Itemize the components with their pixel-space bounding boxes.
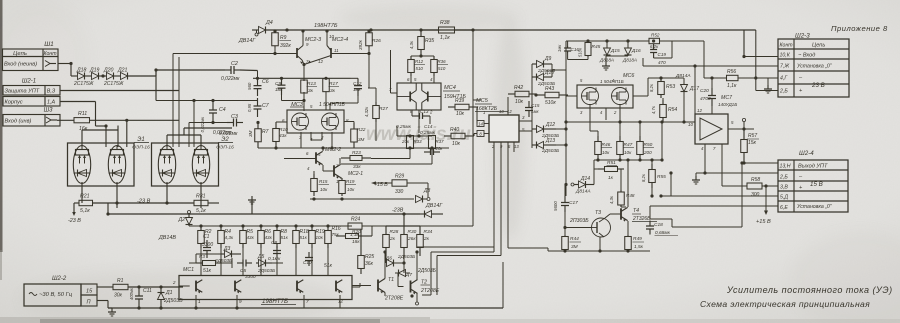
resistor R51 xyxy=(598,168,605,170)
connector table Sh2-4 xyxy=(778,160,848,212)
wire MC2-1 collector to R37 column xyxy=(341,163,432,165)
svg-text:R24: R24 xyxy=(351,217,360,223)
wire D4 terminal xyxy=(252,29,257,31)
transistor MC2-4 xyxy=(330,48,332,58)
capacitor C2 xyxy=(225,69,231,71)
wires T1 T2 xyxy=(385,256,387,263)
resistor R20 xyxy=(340,235,346,237)
transistor MC2-2 xyxy=(315,152,317,163)
capacitor C16 xyxy=(567,46,569,48)
resistor R42 xyxy=(508,93,515,95)
resistor R16 xyxy=(327,226,329,231)
svg-text:-23В: -23В xyxy=(392,208,404,214)
connector row Zashita UPT xyxy=(3,86,60,96)
svg-text:300: 300 xyxy=(751,192,760,198)
connector row Korpus xyxy=(3,97,60,107)
svg-text:Т1: Т1 xyxy=(388,277,394,283)
svg-text:2Т208Е: 2Т208Е xyxy=(384,296,404,302)
svg-text:330: 330 xyxy=(395,189,404,195)
svg-text:3к: 3к xyxy=(330,88,336,94)
resistor R18 xyxy=(295,226,297,231)
wires box to bottom bus xyxy=(195,295,197,308)
svg-text:3М: 3М xyxy=(571,244,578,250)
top bus xyxy=(266,29,756,31)
svg-text:10к: 10к xyxy=(456,111,465,117)
resistor R10 xyxy=(275,122,277,129)
diode D8 xyxy=(416,196,423,203)
capacitor C19 xyxy=(653,44,655,50)
capacitor C9 xyxy=(281,78,283,85)
connector row Vhod inv xyxy=(3,115,60,127)
svg-text:15 В: 15 В xyxy=(810,181,823,188)
svg-text:510: 510 xyxy=(438,66,446,71)
capacitor C13 xyxy=(412,115,420,117)
svg-text:510к: 510к xyxy=(578,47,583,57)
svg-text:С12: С12 xyxy=(353,81,362,86)
MC5 pin tabs xyxy=(477,121,484,127)
svg-text:ДВ14В: ДВ14В xyxy=(158,235,176,241)
terminal above R57 xyxy=(742,118,745,121)
svg-text:4,3к: 4,3к xyxy=(609,195,614,204)
resistor R19 xyxy=(311,226,313,231)
wires resistor row to box xyxy=(200,248,202,275)
base wire MC2-4 xyxy=(331,53,369,55)
wires below optos xyxy=(81,182,83,203)
svg-text:ОЭП-16: ОЭП-16 xyxy=(216,145,234,151)
feedback wire y227 xyxy=(672,226,742,228)
resistor R27 xyxy=(375,102,377,106)
resistor R2 xyxy=(200,226,202,231)
transistor MC4b in box xyxy=(335,281,337,292)
svg-text:2Д503Б: 2Д503Б xyxy=(257,268,275,274)
svg-text:R39: R39 xyxy=(455,98,464,104)
base wire MC2-3 xyxy=(274,48,276,54)
svg-text:392к: 392к xyxy=(358,39,363,50)
svg-text:МС6: МС6 xyxy=(623,73,634,79)
svg-text:3М: 3М xyxy=(248,130,253,137)
svg-text:Ш2-1: Ш2-1 xyxy=(22,79,36,85)
svg-text:Д4: Д4 xyxy=(265,20,273,26)
diode D7 xyxy=(399,270,406,277)
resistor R1 xyxy=(113,284,128,289)
capacitor C11 xyxy=(138,287,140,296)
svg-text:5,1к: 5,1к xyxy=(80,208,90,214)
svg-text:С7: С7 xyxy=(262,103,270,109)
svg-text:С10: С10 xyxy=(303,260,312,265)
svg-text:18к: 18к xyxy=(352,239,360,245)
capacitor C5 xyxy=(237,262,243,264)
svg-text:43к: 43к xyxy=(279,133,287,139)
ground near Sh2-3 xyxy=(767,85,769,89)
wire 6E row xyxy=(650,205,778,207)
svg-text:2: 2 xyxy=(172,280,176,285)
svg-text:10к: 10к xyxy=(316,235,324,240)
zener bottom wire and ground xyxy=(568,59,588,61)
vertical bus to 2B row xyxy=(755,30,757,91)
wires MC5 bottom xyxy=(493,142,495,252)
svg-text:R52: R52 xyxy=(651,33,660,38)
optocoupler block E1 box xyxy=(68,143,135,186)
svg-text:R42: R42 xyxy=(514,85,523,91)
diode D9 xyxy=(537,61,544,68)
svg-text:0,022мк: 0,022мк xyxy=(219,131,238,137)
svg-text:Ш3: Ш3 xyxy=(44,108,54,114)
resistor R13 xyxy=(303,80,305,81)
svg-text:36к: 36к xyxy=(365,261,374,267)
resistor R15 xyxy=(313,174,315,179)
svg-text:Д19: Д19 xyxy=(89,68,100,74)
svg-text:1,1к: 1,1к xyxy=(440,35,450,41)
svg-text:5600: 5600 xyxy=(553,201,558,211)
capacitor C15 xyxy=(528,101,530,108)
capacitor C1 xyxy=(206,240,208,248)
svg-text:4,7к: 4,7к xyxy=(651,105,656,114)
svg-text:10: 10 xyxy=(688,122,693,127)
svg-text:Д17: Д17 xyxy=(689,86,699,92)
svg-text:7: 7 xyxy=(306,299,309,304)
resistor R44 xyxy=(564,235,566,237)
wires center verticals xyxy=(344,121,354,123)
svg-text:9: 9 xyxy=(239,299,242,304)
svg-text:~30 В, 50 Гц: ~30 В, 50 Гц xyxy=(39,292,73,298)
svg-text:4,3к: 4,3к xyxy=(409,40,414,49)
svg-text:140УД1Б: 140УД1Б xyxy=(718,102,737,107)
wires under R46 R47 R50 xyxy=(619,122,621,136)
resistor R54 xyxy=(662,100,664,105)
svg-text:Д7: Д7 xyxy=(405,272,412,278)
svg-text:R17: R17 xyxy=(329,81,338,87)
ground bottom xyxy=(111,308,113,312)
svg-text:1,5к: 1,5к xyxy=(634,244,644,250)
svg-text:10к: 10к xyxy=(452,141,461,147)
svg-text:1к: 1к xyxy=(608,175,614,181)
svg-text:Д8: Д8 xyxy=(423,188,431,194)
resistor R35 xyxy=(420,30,422,37)
wire 3V row with R58 xyxy=(722,185,747,187)
wire y148 xyxy=(258,147,449,149)
ground under 2B wire xyxy=(695,173,697,176)
resistor R55 xyxy=(651,164,653,170)
wire inv input run xyxy=(127,119,179,121)
svg-text:R47: R47 xyxy=(624,142,633,148)
svg-text:8,2к: 8,2к xyxy=(641,173,646,182)
svg-text:ОЭП-16: ОЭП-16 xyxy=(132,145,150,151)
svg-text:Ш2-4: Ш2-4 xyxy=(799,150,814,157)
svg-text:R31: R31 xyxy=(196,194,206,200)
bus -23V horizontal xyxy=(108,213,420,215)
svg-text:30к: 30к xyxy=(114,293,123,299)
wire -23V to R28 R30 R34 xyxy=(386,225,420,227)
svg-text:R38: R38 xyxy=(440,20,450,26)
svg-text:3300: 3300 xyxy=(202,242,213,248)
optocoupler E1a xyxy=(73,146,90,184)
resistor R52 xyxy=(649,38,660,43)
vertical to opto E2 xyxy=(172,54,174,148)
diode D6 xyxy=(387,260,394,267)
svg-text:2к: 2к xyxy=(389,236,396,242)
svg-text:Д814А: Д814А xyxy=(575,189,591,195)
svg-text:15к: 15к xyxy=(748,140,757,146)
wire zashita UPT xyxy=(60,90,179,92)
svg-text:1мк: 1мк xyxy=(353,87,361,92)
svg-text:R26: R26 xyxy=(372,38,381,44)
diode D13 xyxy=(537,142,544,149)
transistor MC2-1 xyxy=(333,165,335,176)
wire mid y100 xyxy=(156,100,258,102)
svg-text:10к: 10к xyxy=(320,187,328,192)
diode D10 xyxy=(537,74,544,81)
svg-text:МС2-1: МС2-1 xyxy=(348,171,363,177)
transistor T2 xyxy=(410,281,412,293)
svg-text:51к: 51к xyxy=(281,235,289,240)
svg-text:Д18: Д18 xyxy=(76,68,87,74)
wire T3 base xyxy=(565,227,592,229)
diode D1 xyxy=(158,293,165,300)
wire top bus branch down x473 xyxy=(472,30,474,100)
wire to 10K row xyxy=(744,56,778,58)
transistor T4 xyxy=(620,208,622,219)
svg-text:3к: 3к xyxy=(308,88,314,94)
svg-text:10к: 10к xyxy=(602,150,610,155)
svg-text:6,2к: 6,2к xyxy=(650,44,659,49)
capacitor C10 xyxy=(308,252,310,258)
svg-text:R34: R34 xyxy=(424,229,433,235)
power connector Sh2-2 box xyxy=(24,284,81,306)
svg-text:R9: R9 xyxy=(280,35,287,41)
svg-text:2Д503Б: 2Д503Б xyxy=(417,268,437,274)
svg-text:200: 200 xyxy=(643,150,652,155)
svg-text:R22: R22 xyxy=(357,127,366,132)
svg-text:10к: 10к xyxy=(624,150,632,155)
transistor MC2-3 xyxy=(296,48,298,58)
svg-text:4,3к: 4,3к xyxy=(225,235,234,240)
resistor R49 xyxy=(627,235,629,237)
svg-text:8,2к: 8,2к xyxy=(649,83,654,92)
svg-text:R58: R58 xyxy=(751,177,760,183)
capacitor C17 xyxy=(564,196,566,203)
svg-text:15: 15 xyxy=(86,289,93,295)
capacitor C12 xyxy=(357,78,359,85)
svg-text:Д818А: Д818А xyxy=(622,58,637,63)
wire to 7Zh via top right xyxy=(672,40,704,42)
IC MC4 dual BJT xyxy=(397,83,441,110)
wire 7Zh long run xyxy=(643,65,778,67)
svg-text:5,1к: 5,1к xyxy=(196,208,206,214)
svg-text:R21: R21 xyxy=(80,194,90,200)
svg-text:43к: 43к xyxy=(265,235,273,240)
wires MC5 to left section xyxy=(431,251,494,253)
svg-text:МС5: МС5 xyxy=(476,98,489,104)
svg-text:-23 В: -23 В xyxy=(137,199,151,205)
svg-text:Вход (неинв): Вход (неинв) xyxy=(4,62,37,68)
resistor R7 xyxy=(257,123,259,129)
wire y122 xyxy=(189,122,227,124)
svg-text:1: 1 xyxy=(198,299,201,304)
svg-text:Цепь: Цепь xyxy=(812,43,825,49)
transistor MC1 in box xyxy=(195,281,197,292)
svg-text:11: 11 xyxy=(334,48,339,53)
svg-text:400мк: 400мк xyxy=(129,287,134,300)
svg-text:10: 10 xyxy=(329,34,334,39)
resistor R8 xyxy=(276,226,278,231)
wire T4 emitter to C18 xyxy=(627,221,629,228)
vertical x179 xyxy=(178,57,180,147)
wire top input to C2 xyxy=(156,69,225,71)
svg-text:4,Г: 4,Г xyxy=(780,76,788,82)
svg-text:R54: R54 xyxy=(668,107,677,113)
svg-text:10к: 10к xyxy=(515,99,524,105)
vertical x194 xyxy=(193,101,195,148)
svg-text:1мк: 1мк xyxy=(557,44,562,52)
resistor R30 xyxy=(403,226,405,235)
svg-text:Т3: Т3 xyxy=(595,210,601,216)
svg-text:МС1: МС1 xyxy=(183,267,194,273)
svg-text:ДВ14Г: ДВ14Г xyxy=(425,203,443,209)
svg-text:R56: R56 xyxy=(727,69,736,75)
svg-text:26к: 26к xyxy=(407,236,416,242)
wire T3 collector to T4 base xyxy=(605,214,610,218)
svg-text:Д20: Д20 xyxy=(103,68,114,74)
svg-text:С1: С1 xyxy=(203,234,210,240)
connector table Sh2-3 xyxy=(778,39,849,97)
svg-text:С20: С20 xyxy=(700,88,709,94)
svg-text:3,В: 3,В xyxy=(780,185,788,191)
diode DV14G right xyxy=(425,211,432,218)
resistor R50 xyxy=(639,136,641,142)
wire 2B row xyxy=(756,90,778,92)
transistor MC3b in box xyxy=(296,281,298,292)
svg-text:R3: R3 xyxy=(199,254,205,259)
wires MC6 xyxy=(566,95,577,97)
label +15V down arrow xyxy=(765,186,767,212)
resistor R22 xyxy=(353,123,355,129)
svg-text:R48: R48 xyxy=(626,193,635,198)
svg-text:Д10: Д10 xyxy=(544,70,554,76)
svg-text:2,Б: 2,Б xyxy=(779,89,788,95)
svg-text:С17: С17 xyxy=(569,200,578,206)
svg-text:ДВ14Г: ДВ14Г xyxy=(238,38,256,44)
capacitor C18 xyxy=(649,221,651,227)
wire y78 gate bias xyxy=(253,77,350,79)
svg-text:С13: С13 xyxy=(420,109,429,114)
bottom wire T3 T4 xyxy=(555,250,650,252)
resistor R11 xyxy=(57,119,74,121)
capacitor C8 xyxy=(276,246,278,251)
wire 2B row xyxy=(696,172,778,174)
resistor R19 xyxy=(341,178,343,181)
svg-text:20к: 20к xyxy=(435,146,444,151)
resistor R40 xyxy=(444,135,451,137)
svg-text:R27: R27 xyxy=(379,106,388,112)
svg-text:Д2: Д2 xyxy=(177,217,185,223)
svg-text:~ Вход: ~ Вход xyxy=(798,53,815,59)
IC MC6 dual FET xyxy=(577,85,633,108)
svg-text:5,Д: 5,Д xyxy=(780,195,788,201)
wire MC2 cluster xyxy=(308,158,316,160)
svg-text:51к: 51к xyxy=(203,268,212,274)
resistors R12 R36 xyxy=(411,55,434,57)
transistor T1 xyxy=(377,280,379,292)
wire R26 down xyxy=(368,54,370,89)
svg-text:С14: С14 xyxy=(424,124,433,129)
svg-text:Т4: Т4 xyxy=(633,208,639,214)
svg-text:R51: R51 xyxy=(607,160,616,166)
svg-text:0,022мк: 0,022мк xyxy=(221,76,240,82)
inner wire C1 xyxy=(196,253,221,255)
wire y247 to MC5 bundle xyxy=(417,246,494,248)
svg-text:Выход УПТ: Выход УПТ xyxy=(798,164,828,170)
svg-text:R44: R44 xyxy=(570,236,579,242)
svg-text:Д1: Д1 xyxy=(165,290,173,296)
resistor R9 xyxy=(274,31,276,33)
svg-text:Д12: Д12 xyxy=(545,122,555,128)
capacitor C20 xyxy=(711,88,713,96)
vertical bus to 10K row xyxy=(743,30,745,57)
svg-text:Корпус: Корпус xyxy=(5,100,23,106)
diode D19 xyxy=(92,73,99,80)
resistor R6 xyxy=(260,226,262,231)
capacitor C6 xyxy=(257,78,259,85)
svg-text:Ш2-2: Ш2-2 xyxy=(52,276,67,282)
svg-text:Установка „0”: Установка „0” xyxy=(797,64,832,70)
resistor rail y226 xyxy=(189,225,352,227)
svg-text:R36: R36 xyxy=(438,59,447,64)
svg-text:R35: R35 xyxy=(425,38,434,44)
svg-text:2Д503Б: 2Д503Б xyxy=(397,254,415,260)
resistor R26 xyxy=(368,31,370,33)
svg-text:R50: R50 xyxy=(644,142,653,148)
wires MC4 bottom xyxy=(396,126,398,136)
wire 4G to ground xyxy=(767,78,769,85)
svg-text:R25: R25 xyxy=(365,254,374,260)
svg-text:Д13: Д13 xyxy=(545,138,555,144)
svg-text:С8: С8 xyxy=(271,240,277,246)
wires MC5 left xyxy=(472,106,477,108)
resistor R25 xyxy=(360,250,362,256)
svg-text:Д21: Д21 xyxy=(117,68,128,74)
svg-text:R12: R12 xyxy=(415,59,424,64)
wire from pin 15 xyxy=(97,286,113,288)
svg-text:33к: 33к xyxy=(353,164,361,170)
svg-text:R45: R45 xyxy=(592,44,601,50)
svg-text:198НТ7Б: 198НТ7Б xyxy=(314,23,338,29)
svg-text:Д3: Д3 xyxy=(223,246,231,252)
svg-text:20к: 20к xyxy=(401,139,410,144)
svg-text:Ш1: Ш1 xyxy=(44,41,54,48)
svg-text:12: 12 xyxy=(338,299,344,304)
resistor R28 xyxy=(385,226,387,235)
resistor R29 xyxy=(392,180,407,186)
svg-text:Усилитель постоянного тока: Усилитель постоянного тока (УЭ) xyxy=(726,285,893,295)
svg-text:С2: С2 xyxy=(231,61,238,67)
svg-text:R57: R57 xyxy=(748,133,757,139)
svg-text:1,А: 1,А xyxy=(47,100,55,106)
wires right ref xyxy=(648,77,684,79)
wires into opto tops xyxy=(81,130,83,147)
wire input neinv xyxy=(58,63,71,65)
svg-text:2к: 2к xyxy=(423,236,430,242)
wire y199 bottom of cluster xyxy=(310,198,414,200)
svg-text:0,25мк: 0,25мк xyxy=(396,124,412,130)
svg-text:R11: R11 xyxy=(78,111,87,117)
wire from pin P to ground xyxy=(97,300,108,302)
svg-text:198НТ7Б: 198НТ7Б xyxy=(262,298,288,305)
resistor R4 xyxy=(220,226,222,231)
svg-text:Д16: Д16 xyxy=(631,48,641,54)
bottom bus xyxy=(108,307,503,309)
capacitor C4 xyxy=(212,101,214,111)
svg-text:1: 1 xyxy=(483,110,485,115)
